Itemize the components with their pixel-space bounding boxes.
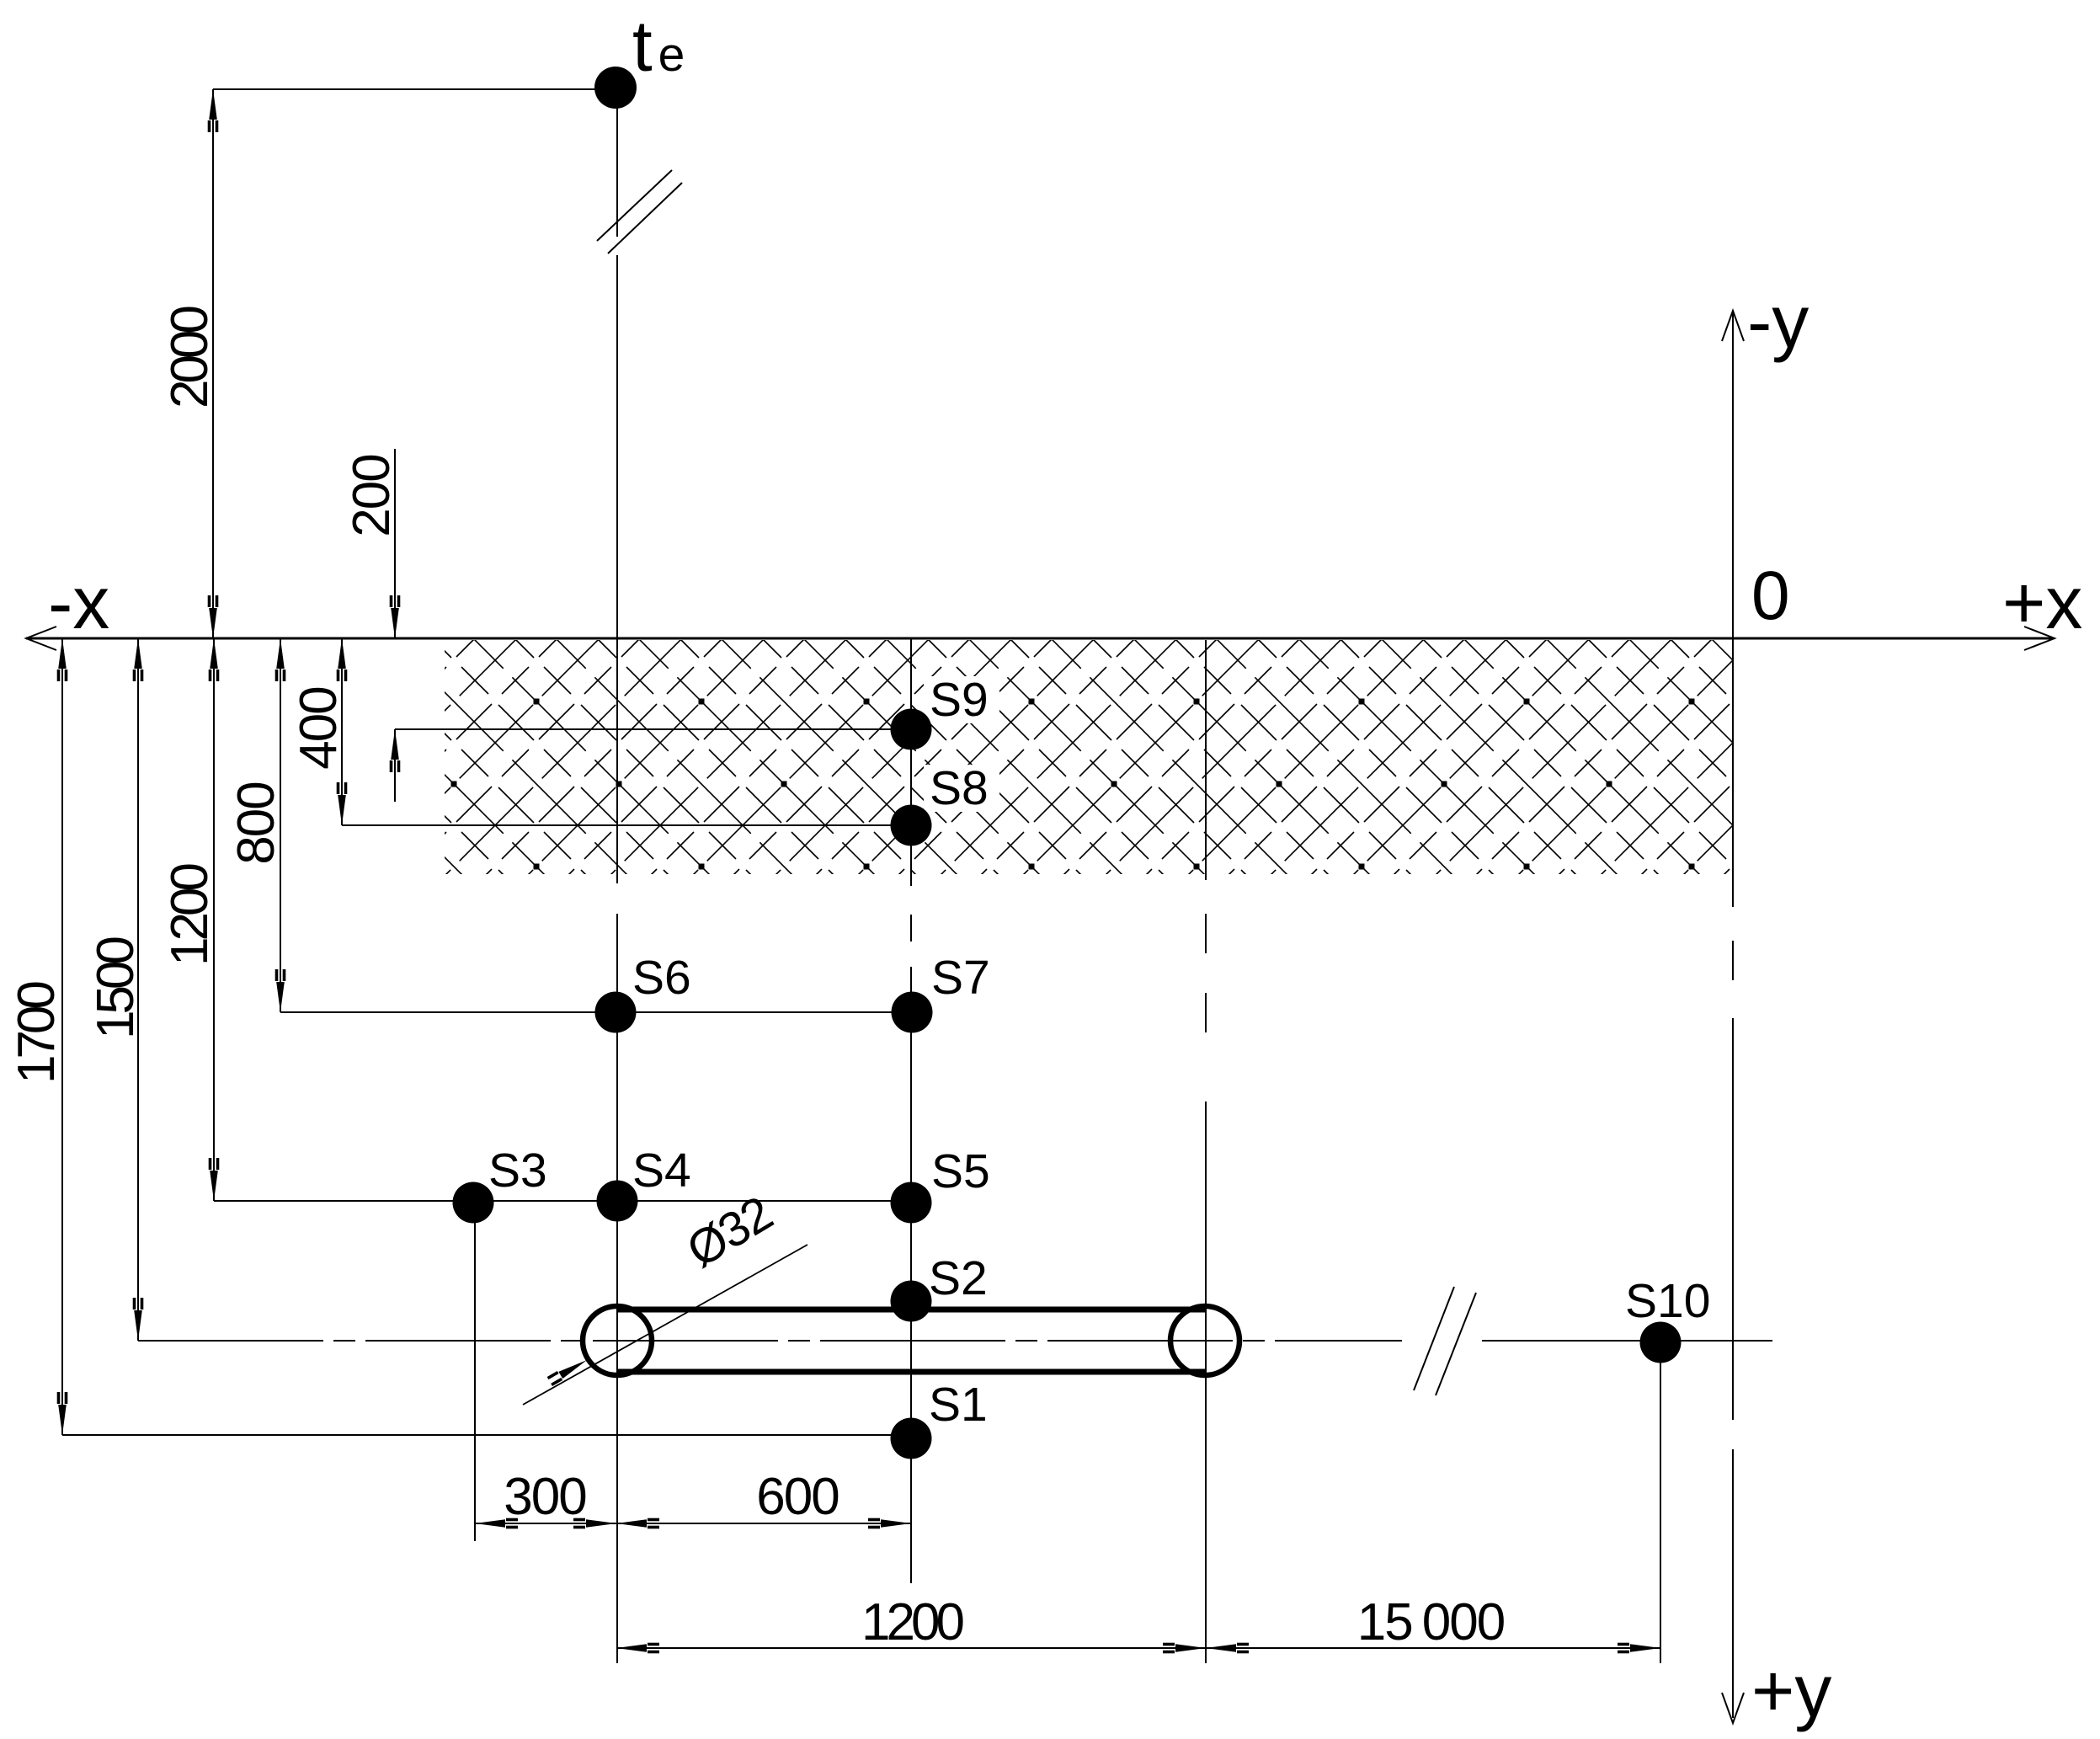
dimension line 1500 (137, 638, 139, 1341)
pipe bottom wall (617, 1369, 1205, 1375)
1500 top arrow (133, 638, 144, 681)
svg-text:15000: 15000 (1357, 1593, 1505, 1651)
point S4 (597, 1181, 638, 1222)
y-axis arrow (+y direction) (1722, 1693, 1744, 1723)
break symbol on pipe centerline (1414, 1287, 1454, 1390)
1200 dim left arrow (616, 1643, 659, 1654)
svg-text:200: 200 (343, 455, 401, 537)
dimension line 400 (341, 638, 343, 825)
svg-text:-y: -y (1747, 280, 1809, 363)
svg-text:+x: +x (2002, 561, 2082, 644)
1700 bottom arrow (57, 1392, 68, 1435)
S1 connector line (1700) (62, 1434, 911, 1436)
svg-text:S9: S9 (930, 673, 989, 727)
borehole column S9-S1 upper part (910, 638, 912, 886)
dimension line 1700 (61, 638, 63, 1435)
svg-text:1500: 1500 (87, 937, 145, 1039)
pipe top wall (617, 1307, 1205, 1313)
point S9 (891, 709, 932, 750)
svg-text:1200: 1200 (161, 864, 219, 966)
400 bottom arrow (337, 782, 348, 825)
1700 top arrow (57, 638, 68, 681)
svg-text:+y: +y (1751, 1649, 1831, 1732)
bottom dimension line 300/600 (475, 1523, 911, 1524)
S10 extension line (1660, 1342, 1661, 1663)
point te (594, 67, 637, 109)
svg-text:S8: S8 (930, 761, 989, 815)
node te column lower solid part (616, 914, 618, 1663)
pipe left end circle (583, 1306, 652, 1375)
dashed extension line at pipe right end (1205, 640, 1207, 1663)
800 bottom arrow (275, 969, 286, 1012)
15000 dim right arrow (1618, 1643, 1660, 1654)
svg-text:S1: S1 (929, 1378, 988, 1432)
x-axis (26, 637, 2053, 640)
y-axis arrow (-y direction) (1722, 311, 1744, 341)
svg-text:S10: S10 (1625, 1274, 1710, 1328)
800 top arrow (275, 638, 286, 681)
hatch mask behind S8 label (924, 765, 999, 812)
point S3 (453, 1182, 494, 1224)
svg-text:2000: 2000 (161, 307, 219, 408)
svg-text:300: 300 (504, 1468, 586, 1526)
svg-text:S2: S2 (929, 1251, 988, 1305)
x-axis right arrow (+x direction) (2024, 627, 2055, 650)
point S5 (891, 1182, 932, 1224)
pipe centerline with extensions (138, 1340, 1402, 1342)
break symbol on te line (597, 170, 672, 241)
svg-text:S7: S7 (931, 951, 990, 1005)
hatched ground band below x-axis (445, 640, 1733, 874)
15000 dim left arrow (1206, 1643, 1249, 1654)
y-axis dashed part below origin (1732, 638, 1734, 1718)
dimension line 800 (280, 638, 281, 1012)
svg-text:400: 400 (290, 687, 348, 770)
1200 dim right arrow (1163, 1643, 1206, 1654)
S6-S7 connector line (800) (280, 1011, 912, 1013)
dimension line 2000 (212, 89, 214, 638)
diameter leader arrow (547, 1356, 589, 1386)
svg-text:1200: 1200 (861, 1593, 963, 1651)
point S2 (891, 1281, 932, 1322)
S3-S4-S5 connector line (1200) (214, 1200, 911, 1202)
dimension line 1200 (213, 638, 215, 1201)
bottom dimension line 1200/15000 (616, 1647, 1660, 1649)
600 dim right arrow (868, 1518, 911, 1529)
borehole column lower solid part (910, 967, 912, 1583)
pipe right end circle (1170, 1306, 1239, 1375)
point S7 (892, 992, 933, 1033)
dimension line 200 lower segment (394, 729, 396, 802)
300 dim left arrow (475, 1518, 518, 1529)
svg-text:800: 800 (227, 782, 285, 865)
point S10 (1640, 1322, 1682, 1363)
svg-text:-x: -x (48, 561, 109, 644)
dimension arrowheads (57, 89, 1660, 1653)
svg-text:S4: S4 (632, 1144, 691, 1198)
S3 extension line (474, 1213, 476, 1541)
svg-text:0: 0 (1751, 557, 1790, 634)
point S1 (891, 1418, 932, 1459)
svg-text:1700: 1700 (8, 982, 66, 1084)
leader line for diameter 32 (523, 1245, 807, 1405)
svg-text:te: te (632, 7, 685, 87)
1200 top arrow (209, 638, 220, 681)
2000 bottom arrow (208, 595, 219, 638)
node te vertical line (616, 90, 618, 237)
200 lower arrow (390, 729, 401, 772)
te dimension connector (2000) (213, 88, 617, 90)
x-axis left arrow (-x direction) (26, 627, 56, 650)
S9 connector line (395, 728, 911, 730)
S8 connector line (342, 824, 911, 826)
200 upper arrow (390, 595, 401, 638)
1500 bottom arrow (133, 1298, 144, 1341)
400 top arrow (337, 638, 348, 681)
1200 bottom arrow (209, 1158, 220, 1201)
hatch mask behind S9 label (924, 676, 999, 723)
svg-text:600: 600 (756, 1468, 839, 1526)
point S6 (595, 992, 637, 1033)
svg-text:S6: S6 (632, 951, 691, 1005)
svg-text:S3: S3 (488, 1144, 547, 1198)
y-axis upper solid part (1732, 311, 1734, 638)
dimension line 200 upper segment (394, 449, 396, 638)
point S8 (891, 805, 932, 846)
svg-text:S5: S5 (931, 1144, 990, 1198)
300 dim right arrow (573, 1518, 616, 1529)
2000 top arrow (208, 89, 219, 132)
borehole column short dash below hatch (910, 915, 912, 942)
600 dim left arrow (616, 1518, 659, 1529)
